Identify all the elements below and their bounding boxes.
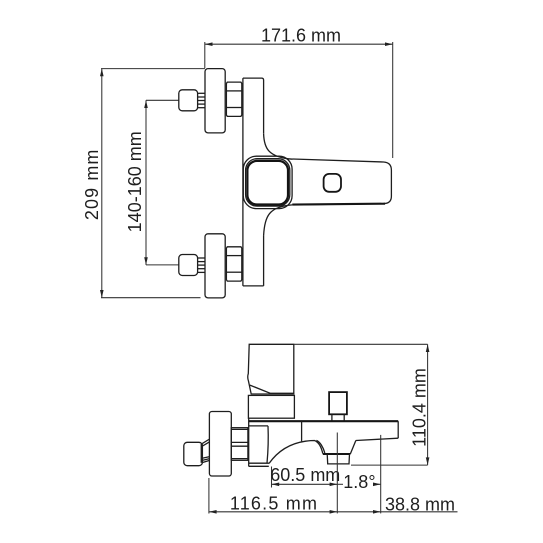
body-to-spout top fillet xyxy=(264,134,293,159)
svg-text:140-160 mm: 140-160 mm xyxy=(125,131,145,232)
outlet flare shelf xyxy=(323,453,351,455)
body-to-spout bottom fillet xyxy=(264,205,293,236)
spout button detail xyxy=(324,174,341,192)
svg-text:1.8°: 1.8° xyxy=(343,472,375,492)
dim 140-160 mm line xyxy=(144,100,179,265)
bottom wall plate xyxy=(205,234,225,298)
handle front face xyxy=(247,161,288,205)
spout arm (front) xyxy=(292,159,391,205)
svg-text:171.6 mm: 171.6 mm xyxy=(261,26,341,46)
top wall plate xyxy=(205,69,225,133)
dim 171.6 mm line xyxy=(205,42,393,158)
spout housing bottom slanted edge (1.8 deg) xyxy=(356,438,398,440)
svg-text:38.8 mm: 38.8 mm xyxy=(385,494,455,514)
hose cap perspective lines xyxy=(202,439,210,463)
wall plate (side) xyxy=(209,412,231,477)
top eccentric cap xyxy=(179,90,198,111)
spout housing top edge xyxy=(249,420,398,422)
spout wave inner line xyxy=(316,440,324,453)
bottom hex nut xyxy=(226,247,241,281)
handle escutcheon outer ring xyxy=(243,156,292,208)
lever handle (side) xyxy=(248,344,294,394)
dim 1.8 deg line xyxy=(337,483,380,487)
top hex nut xyxy=(226,82,241,116)
aerator xyxy=(327,454,349,464)
bottom eccentric cap xyxy=(179,255,198,276)
diverter stem xyxy=(332,414,344,421)
bottom eccentric thread xyxy=(198,258,205,272)
top eccentric thread xyxy=(198,93,205,107)
svg-text:209 mm: 209 mm xyxy=(82,148,102,220)
spout tip extension line xyxy=(380,435,382,514)
faucet body column (front) xyxy=(243,78,264,286)
lever underside line xyxy=(250,385,294,393)
spout housing right edge xyxy=(397,421,399,438)
eccentric hex nut (side) xyxy=(231,428,248,461)
dim 110.4 mm line xyxy=(295,344,430,465)
dim 116.5 / 38.8 mm bottom line xyxy=(209,510,458,514)
dim 60.5 mm line xyxy=(272,467,338,488)
spout underside curve (side) xyxy=(269,441,323,464)
handle escutcheon middle ring xyxy=(246,159,290,206)
spout body junction line (side) xyxy=(301,422,303,442)
cartridge collar xyxy=(248,395,294,418)
svg-text:116.5 mm: 116.5 mm xyxy=(230,493,318,513)
spout arm bottom accent xyxy=(292,203,385,206)
dim 209 mm line xyxy=(100,69,205,298)
diverter knob xyxy=(329,392,347,414)
outlet flare right edge xyxy=(350,440,356,454)
wall plane extension line xyxy=(208,478,210,514)
svg-text:110.4 mm: 110.4 mm xyxy=(410,368,430,447)
outlet centre extension line xyxy=(336,433,338,514)
shower hose cap (tilted) xyxy=(184,442,203,465)
svg-text:60.5 mm: 60.5 mm xyxy=(270,465,340,485)
body column (side) xyxy=(249,418,270,466)
